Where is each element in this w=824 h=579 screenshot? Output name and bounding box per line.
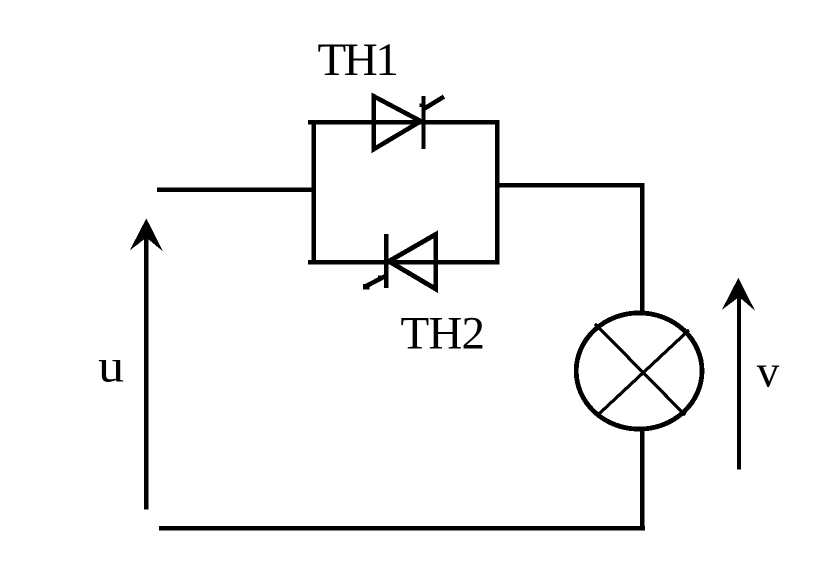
- arrow u (arrowhead): [130, 218, 163, 251]
- wire bottom return horizontal: [159, 526, 645, 531]
- wire left input horizontal: [157, 187, 316, 191]
- wire parallel-loop left vertical: [311, 120, 316, 265]
- wire lamp top lead vertical: [640, 183, 644, 313]
- thyristor TH2: [363, 234, 436, 290]
- arrow v (arrowhead): [722, 278, 755, 311]
- arrow u (voltage arrow, shaft): [144, 232, 148, 510]
- svg-text:u: u: [98, 340, 124, 392]
- svg-text:TH1: TH1: [318, 34, 397, 86]
- lamp L1: [576, 313, 702, 429]
- wire lamp bottom lead vertical: [640, 429, 644, 530]
- wire right output horizontal: [497, 183, 644, 187]
- thyristor TH1: [374, 96, 444, 149]
- svg-text:v: v: [757, 346, 780, 396]
- wire parallel-loop bottom rail: [308, 260, 500, 265]
- arrow v (voltage arrow, shaft): [737, 292, 741, 469]
- wire parallel-loop right vertical: [495, 120, 500, 265]
- svg-text:TH2: TH2: [401, 308, 485, 360]
- wire parallel-loop top rail: [308, 120, 499, 125]
